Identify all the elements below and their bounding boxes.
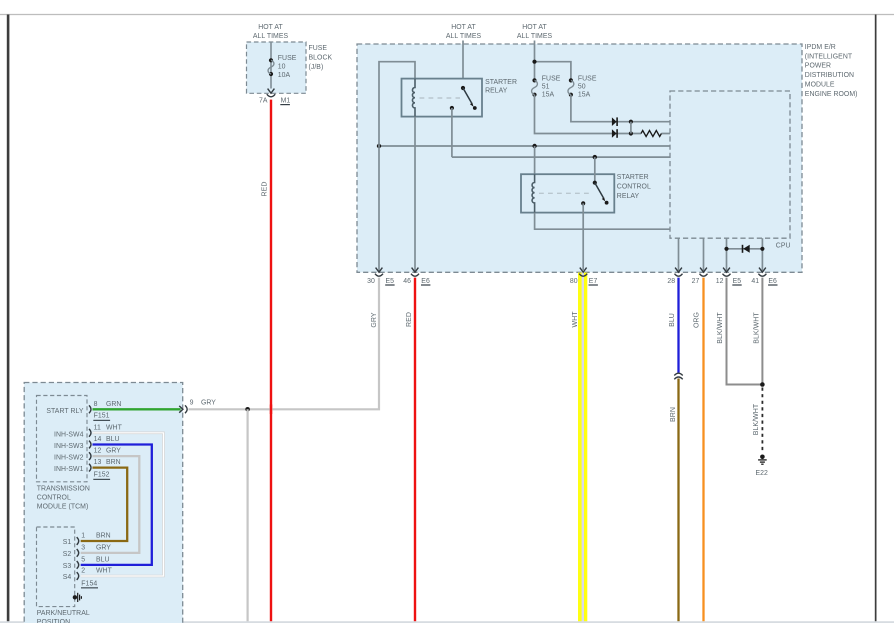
fuse block box (247, 42, 307, 93)
svg-text:IPDM E/R: IPDM E/R (805, 44, 836, 51)
label HOT AT ALL TIMES (fuses feed) (517, 24, 553, 40)
svg-text:BLU: BLU (106, 436, 120, 443)
svg-text:ORG: ORG (694, 312, 701, 328)
starter control relay coil (532, 174, 535, 212)
svg-text:S4: S4 (63, 574, 72, 581)
wire starter relay coil to pin46 (414, 117, 416, 272)
page bottom border band (0, 621, 894, 623)
svg-text:F151: F151 (94, 412, 110, 419)
svg-text:E5: E5 (386, 278, 395, 285)
node diode link left (724, 247, 728, 251)
svg-text:80: 80 (570, 278, 578, 285)
fuse 50 15A (568, 76, 597, 99)
svg-text:BLOCK: BLOCK (309, 54, 333, 61)
svg-text:(J/B): (J/B) (309, 64, 324, 71)
wire BLK/WHT from pin12 (727, 278, 763, 385)
wire BRN loop (81, 468, 128, 541)
svg-text:BRN: BRN (106, 459, 121, 466)
starter relay actuation dashed (420, 97, 461, 99)
node diode tie bottom (629, 131, 633, 135)
ground E22 (756, 455, 769, 478)
svg-text:E7: E7 (589, 278, 598, 285)
svg-text:15A: 15A (542, 92, 555, 99)
wire BLK/WHT dashed to ground (761, 388, 763, 453)
svg-text:DISTRIBUTION: DISTRIBUTION (805, 72, 854, 79)
svg-text:30: 30 (367, 278, 375, 285)
pin S4 2 (63, 568, 113, 589)
svg-text:3: 3 (81, 545, 85, 552)
svg-text:CONTROL: CONTROL (37, 495, 71, 502)
pin INH-SW4 11 (54, 424, 123, 438)
svg-text:STARTER: STARTER (485, 79, 517, 86)
node GRY branch junction (245, 407, 250, 412)
wire switch bus y157 (452, 156, 670, 158)
connector arrow GRN to GRY (179, 400, 216, 414)
svg-text:F152: F152 (94, 471, 110, 478)
TCM connector box F151/F152 (37, 396, 88, 482)
svg-text:MODULE: MODULE (805, 82, 835, 89)
page right black bar (875, 15, 877, 623)
label HOT AT ALL TIMES (starter relay feed) (446, 24, 482, 40)
svg-text:50: 50 (578, 84, 586, 91)
label PARK/NEUTRAL POSITION (37, 610, 90, 623)
fuse 10 10A (268, 55, 297, 79)
svg-text:12: 12 (716, 278, 724, 285)
svg-text:HOT AT: HOT AT (451, 24, 476, 31)
svg-text:PARK/NEUTRAL: PARK/NEUTRAL (37, 610, 90, 617)
wire control relay output to pin80 (582, 203, 584, 270)
pin INH-SW1 13 (54, 459, 121, 480)
diode D2 (612, 129, 617, 138)
wire GRN (93, 408, 181, 410)
svg-text:S2: S2 (63, 551, 72, 558)
svg-text:BRN: BRN (96, 533, 111, 540)
svg-text:41: 41 (751, 278, 759, 285)
pin 80 E7 (570, 268, 598, 286)
svg-text:14: 14 (94, 436, 102, 443)
wire WHT yellow halo from pin 80 (578, 273, 587, 623)
svg-text:E6: E6 (768, 278, 777, 285)
svg-text:GRN: GRN (106, 401, 121, 408)
diode D1 (612, 117, 617, 126)
pin START RLY 8 (46, 401, 121, 421)
diode D3 (743, 245, 750, 253)
wire coil-node bus y146 (379, 145, 670, 147)
wire diode D3 link (727, 248, 763, 250)
wire branch to fuse 50 (535, 62, 571, 81)
label STARTER RELAY (485, 79, 517, 95)
svg-text:BLU: BLU (669, 313, 676, 327)
svg-text:13: 13 (94, 459, 102, 466)
wire BLK/WHT from pin41 (761, 278, 763, 385)
svg-text:2: 2 (81, 568, 85, 575)
wire fuse 50 to CPU (571, 95, 670, 122)
svg-text:WHT: WHT (106, 424, 123, 431)
wire RED from pin46 (414, 278, 416, 622)
svg-text:INH-SW4: INH-SW4 (54, 431, 84, 438)
svg-text:CONTROL: CONTROL (617, 183, 651, 190)
svg-text:RED: RED (406, 312, 413, 327)
svg-text:RELAY: RELAY (617, 193, 640, 200)
svg-text:POWER: POWER (805, 63, 831, 70)
CPU box (670, 91, 790, 238)
connector arrow 7A M1 (259, 89, 290, 106)
label STARTER CONTROL RELAY (617, 174, 651, 200)
wire BRN continuation (677, 379, 679, 623)
wire CPU output 12 (726, 238, 728, 272)
wire CPU output 28 (678, 238, 680, 272)
wire WHT loop (81, 433, 164, 576)
wire GRY from pin30 (189, 278, 380, 410)
svg-text:(INTELLIGENT: (INTELLIGENT (805, 53, 853, 60)
pin S3 5 (63, 557, 110, 571)
pin 46 E6 (403, 268, 430, 286)
fuse 51 15A (532, 76, 561, 99)
svg-text:BLK/WHT: BLK/WHT (753, 403, 760, 435)
svg-text:GRY: GRY (371, 312, 378, 327)
svg-text:BLU: BLU (96, 557, 110, 564)
node diode link right (760, 247, 764, 251)
svg-text:FUSE: FUSE (278, 55, 297, 62)
wire diode tie (630, 122, 632, 134)
svg-text:11: 11 (94, 424, 101, 431)
label HOT AT ALL TIMES (fuse block) (253, 24, 289, 40)
starter relay box (402, 79, 483, 117)
pin INH-SW2 12 (54, 448, 121, 462)
resistor R1 (masks wire under zigzag) (641, 129, 661, 138)
svg-text:TRANSMISSION: TRANSMISSION (37, 486, 90, 493)
wire RED crossing overlay (270, 405, 272, 415)
svg-text:ENGINE ROOM): ENGINE ROOM) (805, 91, 858, 98)
svg-text:51: 51 (542, 84, 550, 91)
svg-text:ALL TIMES: ALL TIMES (517, 33, 553, 40)
svg-text:BLK/WHT: BLK/WHT (753, 312, 760, 344)
wire starter relay switch output (451, 108, 453, 157)
pin S2 3 (63, 545, 112, 559)
wire control relay coil feed (534, 146, 536, 183)
svg-text:46: 46 (403, 278, 411, 285)
wire control relay switch feed (594, 157, 596, 183)
svg-text:GRY: GRY (201, 400, 216, 407)
svg-text:8: 8 (94, 401, 98, 408)
svg-text:START RLY: START RLY (46, 408, 83, 415)
svg-text:HOT AT: HOT AT (522, 24, 547, 31)
svg-text:S3: S3 (63, 563, 72, 570)
label IPDM E/R (INTELLIGENT POWER DISTRIBUTION MODULE ENGINE ROOM) (805, 44, 858, 98)
wire battery feed to starter relay switch (462, 41, 464, 89)
wire BLU from pin28 (677, 278, 679, 373)
svg-text:POSITION: POSITION (37, 619, 70, 623)
svg-text:FUSE: FUSE (578, 76, 597, 83)
IPDM E/R box (357, 44, 802, 272)
wire pin30 vertical + inverted U to starter relay coil (379, 62, 415, 272)
svg-text:15A: 15A (578, 92, 591, 99)
svg-text:27: 27 (692, 278, 700, 285)
label TRANSMISSION CONTROL MODULE (TCM) (37, 486, 90, 511)
TCM box (24, 383, 183, 623)
svg-text:STARTER: STARTER (617, 174, 649, 181)
svg-text:S1: S1 (63, 539, 72, 546)
svg-text:E22: E22 (756, 470, 769, 477)
svg-text:F154: F154 (81, 581, 97, 588)
svg-text:5: 5 (81, 557, 85, 564)
svg-text:INH-SW1: INH-SW1 (54, 466, 84, 473)
svg-text:ALL TIMES: ALL TIMES (446, 33, 482, 40)
starter control relay switch (581, 181, 608, 206)
wire control relay coil to CPU (535, 213, 670, 230)
svg-text:E6: E6 (421, 278, 430, 285)
node starter control relay switch junction (593, 155, 597, 159)
node fuse feed junction (532, 60, 536, 64)
starter relay switch (450, 86, 477, 110)
label FUSE BLOCK (J/B) (309, 45, 333, 71)
pin 27 (692, 268, 708, 286)
svg-text:9: 9 (190, 400, 194, 407)
node starter control relay coil junction (532, 144, 536, 148)
TCM connector box F154 (37, 527, 75, 607)
svg-text:7A: 7A (259, 98, 268, 105)
wire CPU output 27 (703, 238, 705, 272)
wire fuse 51 to CPU via resistor (535, 95, 671, 134)
node diode tie top (629, 120, 633, 124)
page top border (0, 14, 894, 16)
svg-text:HOT AT: HOT AT (258, 24, 283, 31)
svg-text:10: 10 (278, 63, 286, 70)
svg-text:WHT: WHT (572, 311, 579, 328)
pin INH-SW3 14 (54, 436, 120, 450)
ground TCM case (73, 593, 82, 602)
pin 12 E5 (716, 268, 742, 286)
pin 41 E6 (751, 268, 777, 286)
svg-text:E5: E5 (733, 278, 742, 285)
svg-text:GRY: GRY (96, 545, 111, 552)
inline connector BLU/BRN (674, 373, 682, 379)
svg-text:1: 1 (81, 533, 85, 540)
starter control relay box (521, 174, 614, 212)
wire ORG from pin27 (702, 278, 704, 622)
node starter relay coil junction (377, 144, 381, 148)
wire GRY loop (81, 456, 140, 553)
svg-text:12: 12 (94, 448, 102, 455)
svg-text:RED: RED (262, 182, 269, 197)
pin 30 E5 (367, 268, 394, 286)
svg-text:ALL TIMES: ALL TIMES (253, 33, 289, 40)
svg-text:GRY: GRY (106, 448, 121, 455)
svg-text:MODULE (TCM): MODULE (TCM) (37, 504, 89, 511)
svg-text:FUSE: FUSE (542, 76, 561, 83)
svg-text:BRN: BRN (670, 407, 677, 422)
svg-text:INH-SW2: INH-SW2 (54, 455, 84, 462)
svg-text:RELAY: RELAY (485, 88, 508, 95)
svg-text:10A: 10A (278, 72, 291, 79)
node BLK/WHT junction (760, 382, 765, 387)
pin S1 1 (63, 533, 111, 547)
control relay actuation dashed (539, 192, 592, 194)
svg-text:CPU: CPU (776, 243, 791, 250)
wire BLU loop (81, 445, 152, 565)
starter relay coil (412, 79, 415, 117)
svg-text:M1: M1 (281, 98, 291, 105)
wire fuse10 feed (270, 42, 272, 89)
svg-text:28: 28 (667, 278, 675, 285)
wire GRY branch down (247, 409, 249, 622)
wire CPU output 41 (761, 238, 763, 272)
svg-text:INH-SW3: INH-SW3 (54, 443, 84, 450)
svg-text:WHT: WHT (96, 568, 113, 575)
wire RED from M1 (270, 100, 272, 622)
wire battery feed to fuses (534, 41, 536, 81)
svg-text:FUSE: FUSE (309, 45, 328, 52)
page left black bar (7, 15, 10, 623)
pin 28 (667, 268, 682, 286)
svg-text:BLK/WHT: BLK/WHT (717, 312, 724, 344)
